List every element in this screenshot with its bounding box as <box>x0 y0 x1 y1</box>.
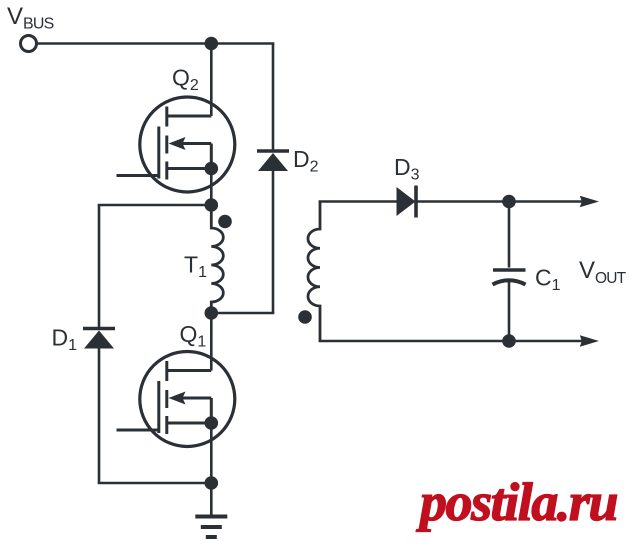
transistor Q1 <box>117 352 235 447</box>
diode D2 <box>257 151 289 171</box>
wire T1 bottom to D2 branch <box>211 312 274 315</box>
ground <box>195 517 227 538</box>
diode D1 <box>83 329 115 349</box>
wire secondary top to D3 <box>319 200 397 203</box>
node junction Q2 source / T1 top <box>205 198 219 212</box>
svg-text:D1: D1 <box>52 325 78 355</box>
transformer T1 primary winding <box>211 205 223 313</box>
svg-text:D3: D3 <box>394 154 420 184</box>
wire D3 to output plus <box>416 200 582 203</box>
wire to ground <box>210 483 213 515</box>
transistor Q2 <box>117 97 235 192</box>
transformer T1 primary phasing dot <box>218 215 232 229</box>
arrow output minus <box>580 335 599 347</box>
wire left branch upper (to D1) <box>98 205 101 327</box>
wire Q1 drain <box>210 313 213 371</box>
wire Q2 source to node <box>210 169 213 206</box>
wire bottom rail <box>98 482 212 485</box>
wire Q1 source to bottom node <box>210 423 213 483</box>
wire C1 bottom <box>508 282 511 342</box>
node junction bottom <box>205 476 219 490</box>
node junction output plus / C1 <box>502 195 516 209</box>
wire VBUS top rail <box>37 42 275 45</box>
svg-text:C1: C1 <box>535 265 561 295</box>
wire left branch lower (D1 to bottom) <box>98 348 101 483</box>
transformer T1 secondary winding <box>308 202 320 342</box>
svg-text:Q2: Q2 <box>172 65 199 95</box>
node junction top <box>205 37 219 51</box>
wire C1 top <box>508 202 511 268</box>
node junction output minus / C1 <box>502 334 516 348</box>
wire D2 branch upper <box>272 44 275 150</box>
diode D3 <box>397 186 417 218</box>
wire secondary bottom to output minus <box>319 340 582 343</box>
capacitor C1 <box>493 270 526 285</box>
svg-text:postila.ru: postila.ru <box>416 472 617 532</box>
svg-text:D2: D2 <box>293 146 319 176</box>
svg-text:T1: T1 <box>184 252 207 282</box>
svg-text:Q1: Q1 <box>180 321 207 351</box>
terminal VBUS <box>21 36 37 52</box>
node junction T1 bottom / Q1 drain <box>205 306 219 320</box>
wire Q2 drain <box>210 44 213 117</box>
svg-text:VBUS: VBUS <box>7 3 54 33</box>
wire D2 branch lower <box>272 171 275 313</box>
wire node to left branch <box>98 204 212 207</box>
svg-text:VOUT: VOUT <box>579 257 627 287</box>
transformer T1 secondary phasing dot <box>298 310 312 324</box>
arrow output plus <box>580 196 599 208</box>
